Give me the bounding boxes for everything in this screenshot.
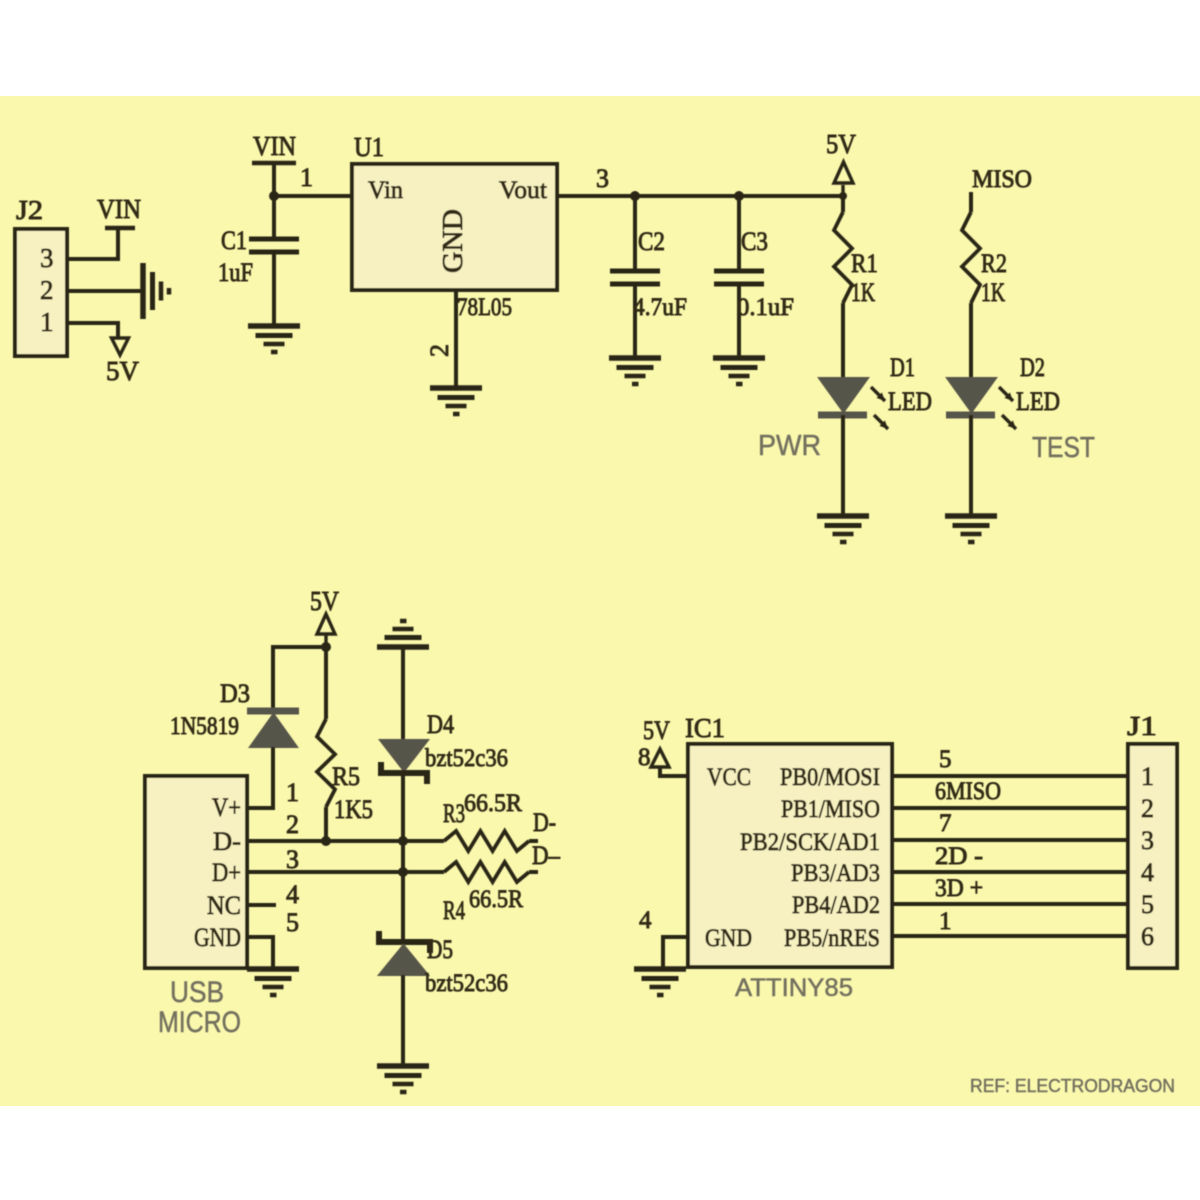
- svg-text:D+: D+: [212, 858, 241, 887]
- svg-text:R2: R2: [981, 249, 1007, 278]
- svg-text:bzt52c36: bzt52c36: [425, 745, 508, 772]
- svg-text:1: 1: [40, 307, 54, 337]
- wire J2 pin1 to 5V: [67, 323, 118, 338]
- wire junction to U1 pin1: [274, 194, 352, 198]
- wire PB1/MISO to J1 pin2: [892, 806, 1128, 810]
- ground under D2: [945, 516, 997, 542]
- svg-text:REF: ELECTRODRAGON: REF: ELECTRODRAGON: [970, 1076, 1175, 1096]
- svg-text:PB4/AD2: PB4/AD2: [792, 892, 880, 919]
- svg-text:Vin: Vin: [368, 177, 403, 204]
- wire USB NC stub: [247, 903, 276, 907]
- wire PB0/MOSI to J1 pin1: [892, 774, 1128, 778]
- svg-text:D4: D4: [427, 710, 454, 739]
- svg-text:2: 2: [425, 344, 454, 357]
- svg-text:5: 5: [939, 746, 952, 773]
- junction 5V/R5: [321, 642, 331, 652]
- resistor R4: [444, 862, 529, 882]
- svg-text:USB: USB: [170, 976, 224, 1009]
- svg-text:2: 2: [40, 275, 54, 305]
- svg-text:0.1uF: 0.1uF: [737, 294, 794, 321]
- junction at C2: [630, 191, 640, 201]
- svg-text:D2: D2: [1020, 353, 1045, 382]
- ground under U1: [430, 388, 482, 414]
- junction D4-D5/D+ line: [398, 867, 408, 877]
- svg-text:C1: C1: [221, 226, 247, 255]
- svg-text:D3: D3: [220, 679, 250, 708]
- svg-text:TEST: TEST: [1032, 432, 1095, 464]
- svg-text:1: 1: [286, 778, 299, 807]
- wire 5V to VCC: [660, 767, 688, 776]
- svg-text:LED: LED: [888, 387, 932, 416]
- wire IC1 GND to ground: [663, 937, 688, 969]
- svg-text:1uF: 1uF: [218, 258, 253, 287]
- svg-text:VIN: VIN: [97, 194, 141, 224]
- svg-text:4: 4: [1141, 858, 1154, 887]
- svg-text:LED: LED: [1016, 387, 1060, 416]
- svg-text:1: 1: [939, 908, 952, 935]
- capacitor C1: [272, 196, 276, 237]
- svg-text:VIN: VIN: [253, 131, 296, 161]
- svg-text:5V: 5V: [106, 356, 140, 386]
- svg-text:3: 3: [286, 845, 299, 874]
- wire J2 pin2: [67, 289, 141, 293]
- ground under C3: [713, 358, 765, 384]
- svg-text:D–: D–: [532, 841, 561, 870]
- svg-text:1K5: 1K5: [334, 795, 373, 824]
- connector J1: [1128, 744, 1177, 968]
- capacitor C2: [633, 196, 637, 269]
- ground under USB: [247, 969, 299, 995]
- wire D4 to D- and D+ lines: [401, 776, 405, 939]
- wire R2 to D2: [969, 303, 973, 378]
- svg-text:6: 6: [1141, 922, 1154, 951]
- svg-text:R5: R5: [332, 762, 360, 791]
- svg-text:R4: R4: [443, 896, 465, 925]
- resistor R2: [962, 212, 980, 303]
- wire U1 Vout to 5V node: [557, 194, 843, 198]
- svg-text:1K: 1K: [851, 278, 875, 307]
- wire R1 to D1: [841, 303, 845, 378]
- svg-text:66.5R: 66.5R: [464, 790, 522, 817]
- zener diode D4: [380, 740, 428, 771]
- svg-text:66.5R: 66.5R: [469, 886, 523, 913]
- svg-text:2D -: 2D -: [935, 843, 983, 870]
- svg-text:bzt52c36: bzt52c36: [425, 970, 508, 997]
- svg-text:D-: D-: [533, 808, 556, 837]
- IC IC1 ATTINY85: [688, 744, 892, 967]
- wire U1 pin2 to ground: [454, 290, 458, 386]
- chassis ground at J2 pin2: [143, 263, 169, 319]
- ground under C2: [609, 358, 661, 384]
- ground under IC1: [634, 969, 686, 995]
- svg-text:MICRO: MICRO: [158, 1006, 241, 1039]
- svg-text:4.7uF: 4.7uF: [633, 294, 687, 321]
- svg-text:GND: GND: [194, 923, 241, 952]
- svg-text:NC: NC: [207, 891, 241, 920]
- svg-text:3: 3: [1141, 826, 1154, 855]
- ground under D1: [817, 516, 869, 542]
- svg-text:R1: R1: [851, 249, 878, 278]
- junction D4/D- line: [398, 836, 408, 846]
- svg-text:C3: C3: [741, 227, 768, 256]
- svg-text:ATTINY85: ATTINY85: [735, 974, 853, 1002]
- wire D- line: [247, 839, 444, 843]
- wire PB3 to J1 pin4: [892, 870, 1128, 874]
- svg-text:8: 8: [638, 744, 651, 771]
- resistor R3: [444, 831, 529, 851]
- junction R5/D- line: [321, 836, 331, 846]
- wire PB5/nRES to J1 pin6: [892, 934, 1128, 938]
- junction VIN/C1: [269, 191, 279, 201]
- wire PB2/SCK to J1 pin3: [892, 838, 1128, 842]
- svg-text:PB1/MISO: PB1/MISO: [781, 796, 880, 823]
- svg-text:1K: 1K: [981, 278, 1005, 307]
- svg-text:PB5/nRES: PB5/nRES: [784, 925, 880, 952]
- wire USB GND to ground: [247, 937, 273, 969]
- svg-text:3: 3: [40, 243, 54, 273]
- svg-text:D-: D-: [213, 827, 241, 856]
- svg-text:R3: R3: [443, 799, 465, 828]
- wire 5V to D3: [273, 647, 326, 709]
- svg-text:GND: GND: [438, 209, 469, 273]
- svg-text:J1: J1: [1127, 711, 1157, 741]
- svg-text:5V: 5V: [310, 586, 339, 616]
- svg-text:2: 2: [1141, 794, 1154, 823]
- svg-text:VCC: VCC: [707, 764, 751, 791]
- svg-text:PB3/AD3: PB3/AD3: [791, 860, 880, 887]
- wire J2 pin3 to VIN: [67, 228, 118, 259]
- capacitor C3: [737, 196, 741, 269]
- svg-text:5V: 5V: [826, 129, 856, 159]
- svg-text:3: 3: [596, 164, 609, 193]
- wire D3 to V+: [247, 747, 273, 808]
- svg-text:D1: D1: [890, 353, 915, 382]
- wire ground to D4: [401, 647, 405, 740]
- svg-text:IC1: IC1: [685, 713, 725, 743]
- svg-text:7: 7: [939, 810, 952, 837]
- wire PB4 to J1 pin5: [892, 902, 1128, 906]
- power 5V arrow at J2: [112, 338, 129, 355]
- svg-text:PB2/SCK/AD1: PB2/SCK/AD1: [740, 829, 880, 856]
- svg-text:5: 5: [286, 908, 299, 937]
- svg-text:PWR: PWR: [758, 430, 821, 462]
- wire D5 to ground: [401, 975, 405, 1066]
- ground above D4: [377, 621, 429, 647]
- svg-text:V+: V+: [212, 793, 241, 822]
- svg-text:MISO: MISO: [972, 166, 1032, 193]
- svg-text:1: 1: [1141, 762, 1154, 791]
- connector J2: [15, 229, 67, 356]
- svg-text:C2: C2: [638, 227, 665, 256]
- svg-text:3D +: 3D +: [935, 875, 983, 902]
- diode D3 1N5819: [247, 708, 299, 715]
- svg-text:D5: D5: [427, 935, 453, 964]
- wire VIN down to junction: [272, 163, 276, 196]
- zener diode D5: [379, 931, 430, 953]
- resistor R5: [317, 719, 335, 807]
- junction at C3: [734, 191, 744, 201]
- connector USB MICRO: [145, 776, 247, 968]
- resistor R1: [841, 196, 845, 212]
- svg-text:4: 4: [286, 880, 299, 909]
- svg-text:5V: 5V: [643, 716, 670, 745]
- power 5V arrow at IC1: [651, 749, 669, 767]
- wire USB V+ stub: [247, 806, 273, 810]
- svg-text:GND: GND: [705, 925, 752, 952]
- svg-text:6MISO: 6MISO: [935, 778, 1001, 805]
- wire MISO to R2: [969, 192, 973, 212]
- wire D1 to ground: [841, 415, 845, 516]
- svg-text:5: 5: [1141, 890, 1154, 919]
- svg-text:4: 4: [639, 907, 652, 934]
- svg-text:PB0/MOSI: PB0/MOSI: [780, 764, 880, 791]
- svg-text:U1: U1: [354, 132, 384, 162]
- ground under C1: [248, 326, 300, 352]
- svg-text:78L05: 78L05: [457, 294, 512, 321]
- svg-text:2: 2: [286, 810, 299, 839]
- svg-text:J2: J2: [16, 195, 43, 225]
- svg-text:Vout: Vout: [499, 177, 547, 204]
- LED D2: [947, 378, 996, 412]
- LED D1: [819, 378, 868, 412]
- ground under D5: [377, 1066, 429, 1092]
- svg-text:1: 1: [300, 163, 313, 192]
- wire D2 to ground: [969, 415, 973, 516]
- svg-text:1N5819: 1N5819: [170, 713, 239, 740]
- voltage regulator U1 78L05: [352, 164, 557, 290]
- wire D+ line: [247, 870, 444, 874]
